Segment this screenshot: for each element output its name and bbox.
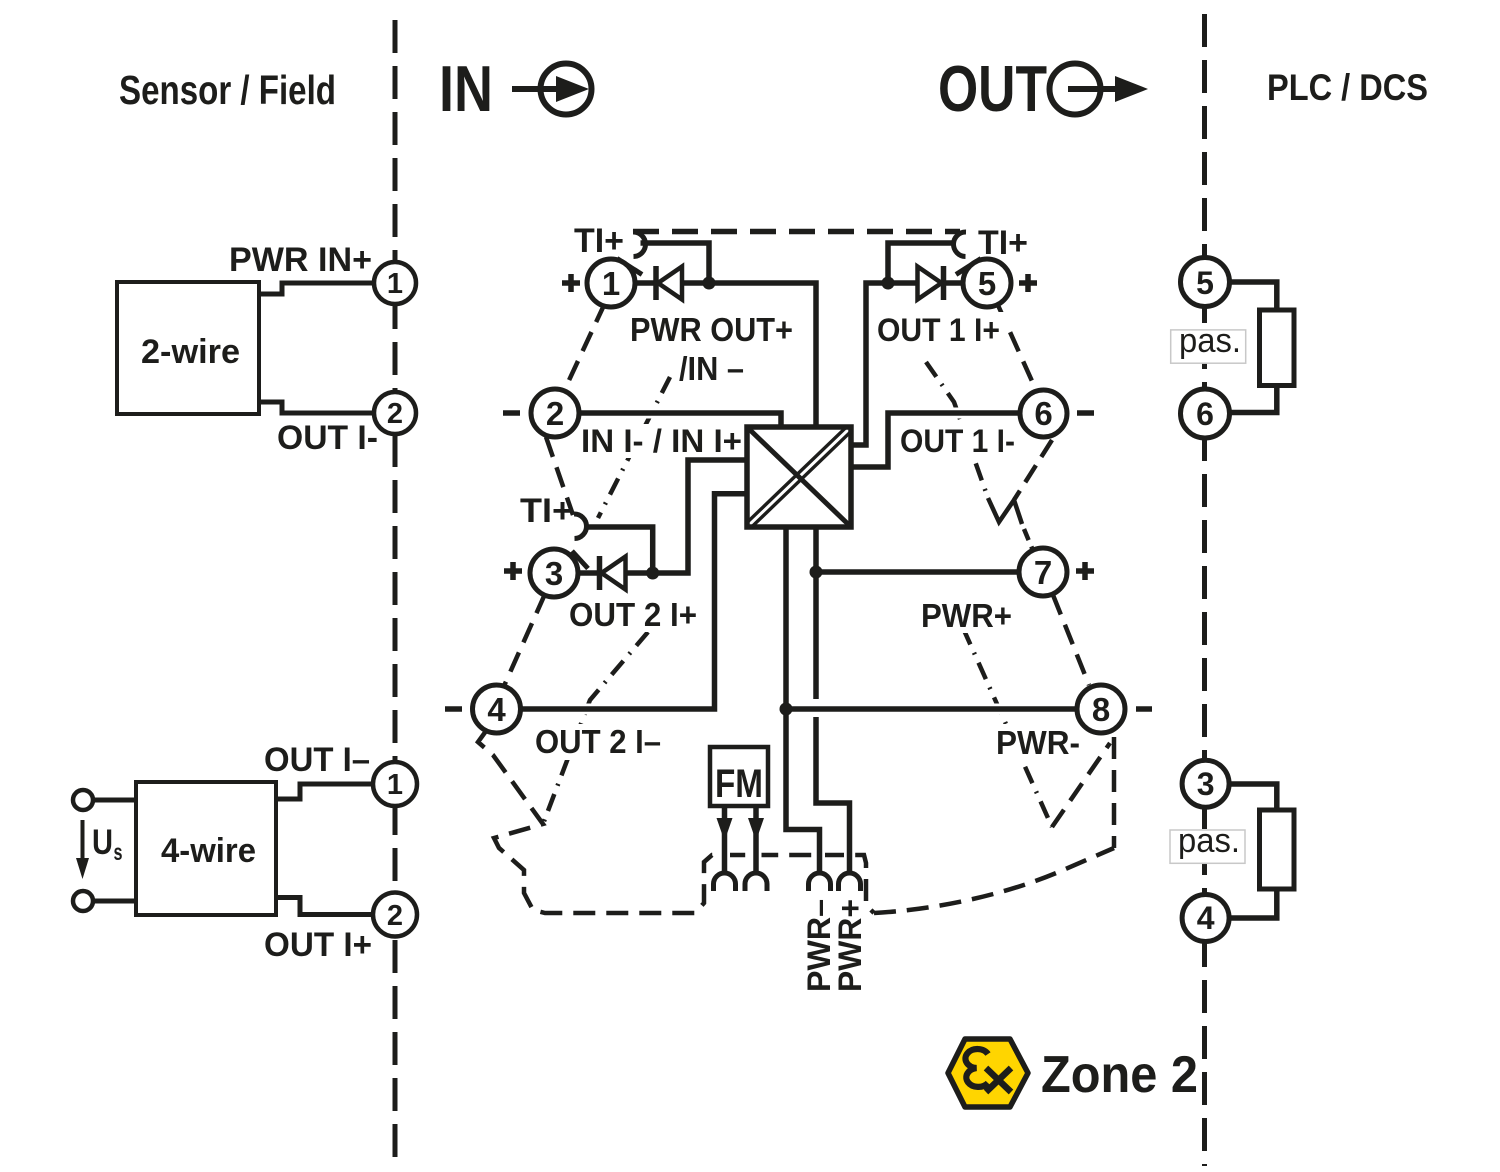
dash-dot alternative line from OUT 1 I+ down to zigzag bbox=[926, 362, 988, 498]
polarity sign + at terminal 3 bbox=[504, 562, 522, 580]
wire: Us source to 4-wire box (lower) bbox=[93, 899, 136, 904]
Ex hazardous area symbol bbox=[948, 1039, 1028, 1107]
svg-text:Zone 2: Zone 2 bbox=[1041, 1046, 1198, 1104]
svg-text:TI+: TI+ bbox=[978, 224, 1028, 262]
svg-text:s: s bbox=[114, 839, 123, 865]
Us source terminal upper bbox=[73, 790, 93, 810]
terminal 7 (module PWR+) bbox=[1019, 548, 1067, 596]
TI+ hook at terminal 5 bbox=[953, 232, 981, 275]
wire: terminal 5 OUT 1 I+ through diode D3 to isolator right bbox=[851, 283, 963, 445]
svg-text:OUT 1 I+: OUT 1 I+ bbox=[877, 312, 1000, 348]
svg-text:5: 5 bbox=[1196, 265, 1214, 301]
polarity sign - at terminal 6 bbox=[1077, 410, 1094, 416]
label background masks bbox=[529, 312, 1087, 761]
terminal 5 (module output 1) bbox=[963, 259, 1011, 307]
svg-text:pas.: pas. bbox=[1178, 822, 1240, 860]
svg-text:OUT 2 I+: OUT 2 I+ bbox=[569, 596, 697, 633]
wire: field 2-wire PWR IN+ to terminal 1 bbox=[259, 283, 376, 294]
diode D3 at terminal 5 (cathode bar right, pointing right) bbox=[918, 266, 944, 300]
svg-text:PWR IN+: PWR IN+ bbox=[229, 241, 372, 279]
terminal 4 (module output 2) bbox=[473, 685, 521, 733]
svg-text:TI+: TI+ bbox=[520, 492, 573, 530]
dashed stub below terminal 8 bbox=[1112, 737, 1117, 848]
diode D2 at terminal 3 (cathode bar left, pointing left) bbox=[600, 556, 626, 590]
dashed boundary: PLC/DCS separation line bbox=[1202, 14, 1207, 1166]
Us source terminal lower bbox=[73, 891, 93, 911]
svg-text:2: 2 bbox=[546, 395, 564, 432]
svg-text:4-wire: 4-wire bbox=[161, 832, 256, 870]
terminal circle 1 (field side, 4-wire) bbox=[373, 762, 417, 806]
svg-text:1: 1 bbox=[387, 268, 403, 300]
svg-text:PWR+: PWR+ bbox=[921, 597, 1012, 634]
dashed link terminal 7 to terminal 8 bbox=[1053, 595, 1089, 685]
svg-text:OUT 2 I–: OUT 2 I– bbox=[535, 723, 661, 760]
wire: TI+ tap of terminal 3 to junction bbox=[588, 527, 653, 573]
wire: TI+ tap of terminal 5 to junction bbox=[888, 243, 956, 283]
resistor (passive load) between PLC terminals 3-4 bbox=[1260, 810, 1295, 889]
polarity sign - at terminal 2 bbox=[503, 410, 520, 416]
svg-text:FM: FM bbox=[715, 762, 763, 806]
dash-dot alternative line from OUT 2 labels down to lower-left vertex bbox=[543, 632, 648, 824]
svg-text:5: 5 bbox=[978, 265, 996, 302]
arrowhead on FM line 1 bbox=[717, 818, 733, 841]
wire: PLC resistor loop terminals 3-4 bbox=[1229, 784, 1277, 918]
dash-dot alternative line from PWR+ label to vertex below terminal 8 bbox=[963, 628, 1110, 827]
svg-text:OUT I-: OUT I- bbox=[277, 419, 378, 457]
label IN with flow symbol bbox=[439, 52, 592, 125]
svg-text:2: 2 bbox=[387, 398, 403, 430]
PLC terminal 6 bbox=[1181, 389, 1230, 438]
isolator U1 (signal converter square with X) bbox=[746, 426, 852, 529]
junction dot at PWR OUT+ node bbox=[703, 277, 716, 290]
svg-text:4: 4 bbox=[1197, 900, 1215, 936]
svg-text:4: 4 bbox=[487, 691, 506, 728]
dashed boundary: Sensor/Field separation line bbox=[393, 20, 398, 1166]
wire: terminal 1 to diode D1 and PWR OUT+ node into isolator top bbox=[634, 283, 816, 427]
svg-text:1: 1 bbox=[602, 265, 620, 302]
svg-text:7: 7 bbox=[1034, 554, 1052, 591]
Us voltage arrow bbox=[76, 820, 89, 879]
Us label bbox=[92, 823, 123, 865]
socket contact 1 (FM) bbox=[714, 873, 736, 891]
PLC terminal 5 bbox=[1181, 258, 1230, 307]
terminal 6 (module output 1) bbox=[1020, 390, 1067, 437]
svg-text:OUT 1 I-: OUT 1 I- bbox=[900, 423, 1015, 459]
socket contact 4 (PWR+) bbox=[839, 873, 861, 891]
svg-text:3: 3 bbox=[1197, 766, 1215, 802]
arrowhead on FM line 2 bbox=[748, 818, 764, 841]
polarity sign + at terminal 5 bbox=[1019, 274, 1037, 292]
wire: PWR+ net from isolator bottom crossing PWR- (with hop gap) to socket bbox=[816, 527, 850, 874]
svg-text:IN I- / IN I+: IN I- / IN I+ bbox=[581, 423, 742, 459]
svg-text:OUT: OUT bbox=[938, 52, 1047, 125]
wire: terminal 4 OUT 2 I- to isolator left bbox=[518, 494, 747, 709]
dashed link terminal 1 to terminal 2 bbox=[564, 303, 605, 391]
wire: PWR- to terminal 8 bbox=[786, 704, 1077, 715]
junction dot at OUT 1 I+ node bbox=[882, 277, 895, 290]
polarity sign - at terminal 4 bbox=[445, 706, 462, 712]
wire: TI+ tap of terminal 1 to junction bbox=[641, 243, 710, 283]
dashed link terminal 5 to terminal 6 bbox=[997, 303, 1036, 390]
svg-text:IN: IN bbox=[439, 52, 493, 125]
wire: field 4-wire OUT I- to lower terminal 1 bbox=[276, 784, 374, 799]
diode D1 at terminal 1 (cathode bar left, pointing left) bbox=[656, 266, 682, 300]
terminal circle 2 (field side, 4-wire) bbox=[373, 893, 417, 937]
svg-text:PWR+: PWR+ bbox=[832, 899, 868, 992]
socket contact 2 (FM) bbox=[745, 873, 767, 891]
svg-text:pas.: pas. bbox=[1179, 322, 1241, 360]
terminal 1 (module input) bbox=[587, 259, 635, 307]
wire: terminal 6 OUT 1 I- to isolator right bbox=[851, 413, 1020, 467]
wire: field 2-wire OUT I- to terminal 2 bbox=[259, 402, 376, 413]
terminal circle 1 (field side, 2-wire) bbox=[374, 262, 416, 304]
svg-text:PLC / DCS: PLC / DCS bbox=[1267, 67, 1428, 108]
wire: PLC resistor loop terminals 5-6 bbox=[1229, 282, 1277, 413]
svg-text:2: 2 bbox=[387, 900, 403, 932]
polarity sign + at terminal 1 bbox=[562, 274, 580, 292]
wire: PWR+ to terminal 7 bbox=[816, 567, 1019, 578]
4-wire device box bbox=[136, 782, 276, 915]
dashed zone boundary outline around bottom connectors bbox=[478, 731, 1114, 913]
dashed TI+ test line between terminal 1 and terminal 5 bbox=[633, 229, 960, 235]
resistor (passive load) between PLC terminals 5-6 bbox=[1260, 310, 1295, 386]
svg-text:PWR OUT+: PWR OUT+ bbox=[630, 311, 793, 348]
wire: FM output lines with arrows to sockets bbox=[725, 806, 757, 874]
terminal circle 2 (field side, 2-wire) bbox=[374, 392, 416, 434]
label pas. upper with box bbox=[1171, 322, 1246, 363]
svg-text:3: 3 bbox=[545, 555, 563, 592]
svg-text:TI+: TI+ bbox=[574, 222, 624, 260]
wire: Us source to 4-wire box (upper) bbox=[93, 798, 136, 803]
2-wire sensor box bbox=[117, 282, 259, 414]
svg-text:OUT I+: OUT I+ bbox=[264, 926, 372, 964]
dashed link terminal 2 to TI+ hook of terminal 3 bbox=[546, 437, 573, 515]
svg-text:U: U bbox=[92, 823, 113, 862]
wire: terminal 2 IN I- to isolator top bbox=[579, 413, 781, 427]
svg-text:/IN –: /IN – bbox=[679, 350, 744, 387]
junction dot at OUT 2 I+ node bbox=[646, 567, 659, 580]
dashed link terminal 6 down to zigzag bbox=[1014, 440, 1052, 500]
wire: field 4-wire OUT I+ to lower terminal 2 bbox=[276, 898, 374, 915]
svg-text:8: 8 bbox=[1092, 691, 1110, 728]
svg-text:1: 1 bbox=[387, 769, 403, 801]
polarity sign - at terminal 8 bbox=[1136, 706, 1152, 712]
terminal 3 (module output 2) bbox=[530, 549, 578, 597]
PLC terminal 4 bbox=[1182, 895, 1229, 942]
wire: PWR- net from isolator bottom to socket and terminal 8 bbox=[786, 527, 820, 874]
FM function module box bbox=[710, 747, 768, 806]
terminal 8 (module PWR-) bbox=[1077, 685, 1125, 733]
TI+ hook at terminal 3 bbox=[572, 514, 588, 569]
dash-dot alternative input line from /IN- label to TI+ hook of terminal 3 bbox=[598, 377, 670, 518]
svg-text:2-wire: 2-wire bbox=[141, 333, 240, 371]
PLC terminal 3 bbox=[1182, 760, 1229, 807]
polarity sign + at terminal 7 bbox=[1076, 562, 1094, 580]
dashed zigzag between terminal 6 and terminal 7 bbox=[988, 498, 1034, 553]
svg-text:Sensor / Field: Sensor / Field bbox=[119, 67, 336, 113]
socket contact 3 (PWR-) bbox=[809, 873, 831, 891]
label OUT with flow symbol bbox=[938, 52, 1148, 125]
terminal 2 (module input) bbox=[531, 389, 579, 437]
svg-text:6: 6 bbox=[1034, 395, 1052, 432]
TI+ hook at terminal 1 bbox=[617, 232, 646, 275]
svg-text:OUT I–: OUT I– bbox=[264, 741, 370, 779]
junction dot at PWR+ node bbox=[810, 566, 823, 579]
svg-text:PWR-: PWR- bbox=[996, 724, 1080, 761]
dashed link terminal 3 to terminal 4 bbox=[504, 594, 545, 686]
wire: terminal 3 OUT 2 I+ through diode D2 to isolator left bbox=[578, 460, 747, 573]
label pas. lower with box bbox=[1170, 822, 1245, 863]
junction dot at PWR- node bbox=[780, 703, 793, 716]
svg-text:6: 6 bbox=[1196, 396, 1214, 432]
